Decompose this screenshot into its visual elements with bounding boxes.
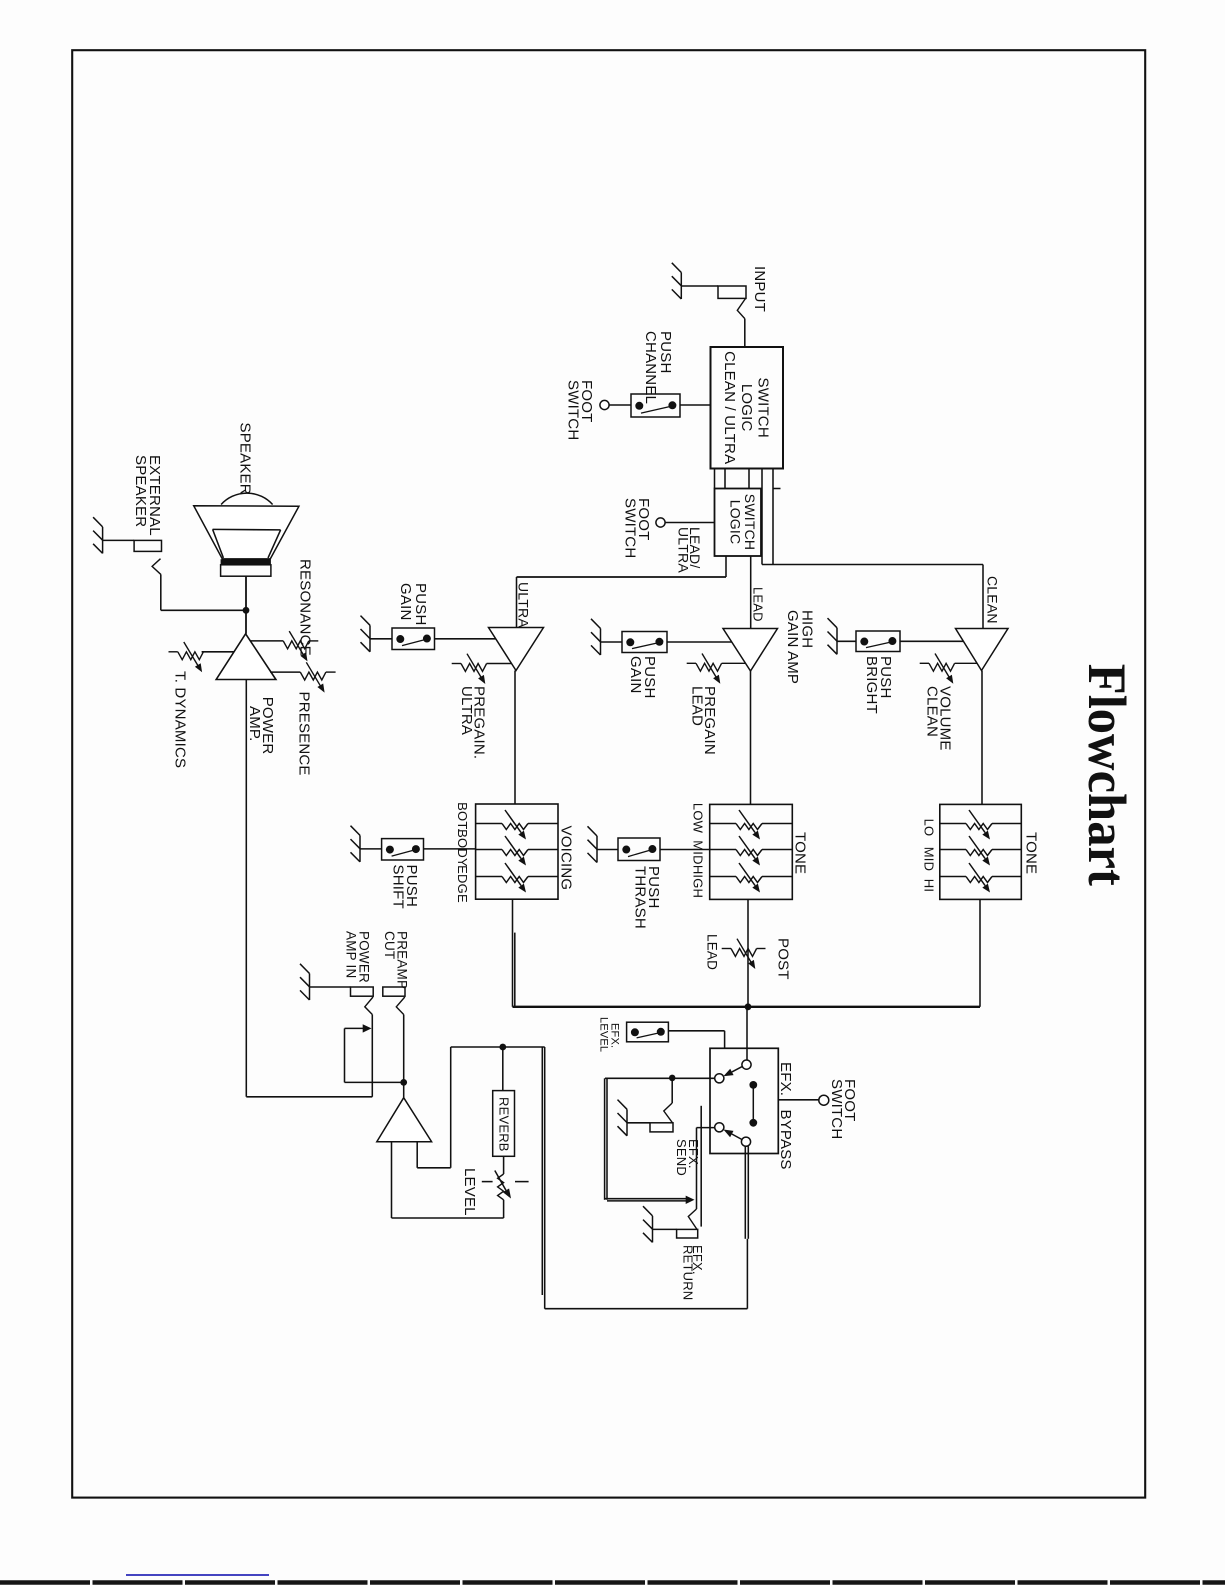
svg-text:LEAD: LEAD <box>705 934 720 970</box>
wire input to switch logic box <box>744 319 746 347</box>
op-amp A4 reverb driver <box>377 1098 432 1142</box>
pot PREGAIN LEAD <box>687 654 746 684</box>
ground (ultra push gain) <box>361 616 371 652</box>
label PREGAIN ULTRA <box>458 686 488 759</box>
wire ground to efx send jack <box>627 1122 650 1124</box>
label FOOT SWITCH (lead/ultra) <box>622 498 653 558</box>
power amp in jack J-PAI <box>351 987 374 996</box>
wire reverb level return <box>392 1217 504 1219</box>
svg-text:BODY: BODY <box>455 829 470 867</box>
clean tone pot row 2 <box>966 836 992 866</box>
label FOOT SWITCH (channel) <box>565 380 596 440</box>
preamp cut jack J-PC <box>383 987 405 996</box>
lead tone pot row 2 wire <box>710 849 793 851</box>
clean tone pot row 1 <box>966 810 992 840</box>
switch S6 PUSH THRASH <box>618 838 660 861</box>
efx return jack tip contact (break) <box>688 1209 697 1229</box>
label EFX LEVEL <box>598 1017 621 1052</box>
svg-text:GAIN: GAIN <box>627 656 644 693</box>
efx send jack tip contact (break) <box>664 1103 673 1123</box>
switch S2 PUSH GAIN (ultra) <box>392 628 435 650</box>
wire U1 lead line <box>761 469 763 565</box>
svg-text:SPEAKER: SPEAKER <box>237 423 254 495</box>
wire power amp output down <box>245 680 247 1097</box>
svg-text:BYPASS: BYPASS <box>777 1110 794 1170</box>
junction (reverb feed) <box>499 1044 506 1051</box>
label VOLUME CLEAN <box>924 686 954 751</box>
wire ground to power amp in jack <box>310 986 351 988</box>
svg-text:ULTRA: ULTRA <box>516 582 532 628</box>
wire bus to efx bypass box <box>746 1007 748 1060</box>
voicing pot row 2 wire <box>476 849 558 851</box>
label LO MID HI <box>922 819 937 893</box>
lead tone pot row 3 <box>736 863 762 893</box>
wire S7 to efx box <box>668 1031 724 1049</box>
label PRESENCE <box>296 692 313 776</box>
voicing pot row 1 <box>502 810 528 840</box>
label PUSH SHIFT <box>390 865 421 909</box>
efx bypass wiper arrow (top) <box>723 1067 742 1077</box>
ground (input jack sleeve) <box>672 263 682 299</box>
label PUSH GAIN (lead) <box>627 656 658 698</box>
wire ground to S4 <box>837 640 856 642</box>
label T.DYNAMICS <box>172 671 189 768</box>
op-amp A1 ultra channel <box>489 628 544 671</box>
wire ext speaker to node <box>161 575 246 611</box>
svg-text:SEND: SEND <box>674 1139 689 1176</box>
wire ground to S2 <box>370 638 392 640</box>
wire S2 to A1 <box>435 638 496 640</box>
switch S1 PUSH CHANNEL <box>631 394 680 417</box>
svg-text:RETURN: RETURN <box>681 1245 696 1300</box>
efx return jack J-RET <box>677 1229 698 1238</box>
wire S6 to lead tone box <box>660 849 710 851</box>
efx bypass bypass contact (upper) <box>749 1081 757 1089</box>
clean tone pot row 3 <box>966 863 992 893</box>
voicing pot row 2 <box>502 836 528 866</box>
switch-logic U1 box CLEAN/ULTRA <box>711 347 784 469</box>
svg-text:SWITCH: SWITCH <box>755 378 772 438</box>
footer link underline <box>126 1574 269 1576</box>
label LEAD/ULTRA <box>676 527 704 573</box>
label TONE (clean) <box>1023 832 1040 874</box>
external speaker jack J-EXT <box>134 540 161 551</box>
op-amp A3 clean channel <box>956 629 1009 671</box>
wire ground to efx return jack <box>653 1228 677 1230</box>
label SPEAKER <box>237 423 254 495</box>
wire normalling loop top <box>345 1027 364 1029</box>
svg-text:ULTRA: ULTRA <box>458 686 475 735</box>
label TONE (lead) <box>792 832 809 874</box>
preamp cut jack tip contact (break) <box>396 997 405 1015</box>
label PUSH CHANNEL <box>642 331 674 404</box>
label BYPASS <box>777 1110 794 1170</box>
wire U1 to U2 bus b <box>724 469 726 489</box>
tone box (lead) <box>710 804 793 899</box>
wire A3 to clean tone box <box>981 671 983 805</box>
input jack J-IN <box>718 286 746 298</box>
wire reverb driver left leg <box>391 1142 393 1218</box>
ground (external speaker) <box>93 517 103 553</box>
svg-text:SPEAKER: SPEAKER <box>132 455 149 527</box>
wire send loop horizontal to return <box>605 1199 686 1201</box>
svg-text:HIGH: HIGH <box>691 865 706 898</box>
wire return contact to return line <box>697 1127 715 1129</box>
ground (efx return) <box>643 1206 653 1242</box>
svg-text:T. DYNAMICS: T. DYNAMICS <box>172 671 189 768</box>
svg-text:SWITCH: SWITCH <box>622 498 639 558</box>
label VOICING <box>558 826 575 891</box>
pot LEVEL (reverb) <box>482 1171 529 1200</box>
wire speaker to node <box>245 576 247 610</box>
wire efx return stub <box>700 1106 702 1227</box>
svg-text:CLEAN / ULTRA: CLEAN / ULTRA <box>721 351 738 464</box>
ground (push thrash) <box>588 826 598 862</box>
switch S7 EFX LEVEL <box>627 1022 669 1042</box>
svg-text:MID: MID <box>691 840 706 864</box>
wire S3 to A2 <box>667 641 732 643</box>
label POWER AMP <box>246 697 276 755</box>
foot switch terminal (lead/ultra) <box>656 518 665 527</box>
wire efx output up to reverb node (a) <box>541 1047 543 1295</box>
label PUSH THRASH <box>632 866 663 929</box>
wire channel switch to U1 <box>680 404 711 406</box>
svg-text:LO: LO <box>922 819 937 837</box>
label LOW MID HIGH <box>691 803 706 898</box>
wire junction to reverb tank <box>502 1047 504 1091</box>
wire to power amp (horizontal) <box>246 1096 372 1098</box>
wire efx output bottom horizontal <box>545 1308 748 1310</box>
svg-text:THRASH: THRASH <box>632 866 649 929</box>
svg-text:EDGE: EDGE <box>455 865 470 903</box>
label LEAD (to high gain amp) <box>751 587 766 622</box>
foot switch terminal (channel) <box>600 400 609 409</box>
speaker frame <box>221 565 271 576</box>
wire reverb tank to level pot <box>503 1156 505 1174</box>
wire reverb feed horizontal <box>451 1046 545 1048</box>
wire stub right of U2 <box>773 488 781 490</box>
label INPUT <box>751 266 768 312</box>
speaker magnet <box>221 559 271 565</box>
svg-text:CUT: CUT <box>382 931 397 959</box>
label BOT. BODY EDGE <box>455 802 470 903</box>
clean tone pot row 2 wire <box>940 849 1022 851</box>
wire efx output up to reverb node (b) <box>544 1047 546 1309</box>
pot RESONANCE <box>250 631 318 661</box>
efx bypass send contact <box>715 1074 724 1083</box>
wire normalling loop vertical <box>344 1028 346 1082</box>
op-amp A5 power amp <box>216 634 276 680</box>
svg-text:RESONANCE: RESONANCE <box>297 559 314 656</box>
wire S5 to voicing box <box>424 848 476 850</box>
svg-text:INPUT: INPUT <box>751 266 768 312</box>
svg-text:SWITCH: SWITCH <box>828 1079 845 1139</box>
wire power amp in normal line <box>371 1015 373 1097</box>
wire reverb driver right leg <box>417 1047 451 1168</box>
wire ground to ext speaker jack <box>103 539 135 541</box>
svg-text:HI: HI <box>922 879 937 892</box>
label PUSH BRIGHT <box>863 656 894 714</box>
wire terminal to U2 <box>665 522 714 524</box>
speaker cone inner <box>213 529 281 558</box>
label FOOT SWITCH (efx) <box>828 1079 858 1139</box>
label EFX. RETURN <box>681 1245 706 1300</box>
speaker dust cap dome <box>221 493 273 504</box>
svg-text:CHANNEL: CHANNEL <box>642 331 659 404</box>
svg-text:CLEAN: CLEAN <box>924 686 941 737</box>
ground (push bright) <box>828 618 838 654</box>
label PREGAIN LEAD <box>689 686 719 755</box>
voicing pot row 3 <box>502 863 528 893</box>
lead tone pot row 2 <box>736 836 762 866</box>
lead tone pot row 1 wire <box>710 823 793 825</box>
pot PREGAIN ULTRA <box>452 654 512 684</box>
label POWER AMP IN <box>344 931 372 983</box>
speaker cone <box>194 506 299 559</box>
op-amp A2 lead channel (high gain amp) <box>723 629 778 672</box>
pot T.DYNAMICS <box>169 642 234 672</box>
label LEAD (post pot) <box>705 934 720 970</box>
junction (lead tone to bus) <box>745 1003 752 1010</box>
efx bypass output contact <box>741 1137 750 1146</box>
svg-text:LEVEL: LEVEL <box>461 1168 478 1216</box>
efx send jack J-SEND <box>650 1123 673 1132</box>
svg-text:GAIN: GAIN <box>397 583 414 620</box>
wire junction to send loop <box>605 1077 672 1079</box>
efx bypass input contact <box>742 1060 751 1069</box>
label POST <box>775 938 792 980</box>
arrow to power amp in line <box>363 1024 372 1032</box>
wire voicing to bus (second) <box>514 933 516 1007</box>
voicing pot row 3 wire <box>476 876 558 878</box>
lead tone pot row 3 wire <box>710 876 793 878</box>
title Flowchart <box>1077 664 1137 886</box>
wire A1 to voicing box <box>514 671 516 805</box>
wire ground to S3 <box>601 641 623 643</box>
wire S4 to A3 <box>900 640 964 642</box>
svg-text:AMP IN: AMP IN <box>344 931 359 978</box>
wire preamp cut normal line <box>403 1015 405 1083</box>
svg-text:SHIFT: SHIFT <box>390 865 407 909</box>
voicing box <box>476 804 558 899</box>
wire efx output down (c) <box>746 1239 748 1309</box>
svg-text:MID: MID <box>922 847 937 871</box>
label LEVEL (reverb) <box>461 1168 478 1216</box>
wire U2 to ultra amp <box>517 556 727 628</box>
wire bypass contacts <box>752 1085 754 1123</box>
arrow to efx return line <box>686 1196 695 1204</box>
svg-text:REVERB: REVERB <box>497 1097 512 1152</box>
svg-text:EFX.: EFX. <box>777 1062 794 1096</box>
wire A2 to tone box <box>750 671 752 804</box>
switch S5 PUSH SHIFT <box>382 839 424 860</box>
wire clean line to clean amp <box>762 565 983 629</box>
input jack tip contact (break) <box>737 299 745 319</box>
svg-text:Flowchart: Flowchart <box>1077 664 1137 886</box>
wire node to reverb driver <box>403 1082 405 1097</box>
wire efx return line <box>696 1128 698 1209</box>
svg-text:BOT.: BOT. <box>455 802 470 832</box>
clean tone pot row 3 wire <box>940 876 1022 878</box>
wire ground to input jack <box>681 285 718 287</box>
page border frame <box>72 50 1145 1497</box>
svg-text:ULTRA: ULTRA <box>676 527 692 573</box>
wire send contact to junction <box>672 1077 715 1079</box>
svg-text:LEAD: LEAD <box>689 686 706 726</box>
foot switch terminal (efx) <box>819 1095 829 1105</box>
wire terminal to channel switch <box>609 404 631 406</box>
bus post-tone summing line <box>513 1006 981 1008</box>
switch-logic U2 box LEAD/ULTRA <box>715 489 762 557</box>
wire lead tone to bus <box>747 899 749 1006</box>
efx bypass wiper arrow (bottom) <box>723 1130 742 1140</box>
svg-text:POST: POST <box>775 938 792 980</box>
wire clean tone to bus <box>979 899 981 1006</box>
wire U1 to U2 bus c <box>748 469 750 489</box>
ext speaker jack tip contact (break) <box>152 559 161 575</box>
svg-text:TONE: TONE <box>792 832 809 874</box>
svg-text:TONE: TONE <box>1023 832 1040 874</box>
efx bypass bypass contact (lower) <box>749 1119 757 1127</box>
pot VOLUME CLEAN <box>920 654 977 684</box>
wire efx output down (b) <box>747 1146 749 1239</box>
pot PRESENCE <box>270 662 335 692</box>
svg-text:BRIGHT: BRIGHT <box>863 656 880 714</box>
junction (power amp node) <box>400 1079 407 1086</box>
label EXTERNAL SPEAKER <box>132 455 163 536</box>
ground (lead push gain) <box>591 619 601 655</box>
junction (efx send) <box>669 1075 676 1082</box>
wire normalling loop bottom <box>345 1081 404 1083</box>
wire level pot to return line <box>503 1200 505 1218</box>
svg-text:AMP.: AMP. <box>246 706 263 742</box>
label EFX. SEND <box>674 1139 701 1176</box>
wire efx output down (a) <box>744 1146 746 1239</box>
pot POST <box>722 939 766 969</box>
svg-text:LEVEL: LEVEL <box>598 1017 610 1052</box>
clean tone pot row 1 wire <box>940 823 1022 825</box>
ground (efx send) <box>618 1100 628 1136</box>
ground (power amp in) <box>300 964 310 1000</box>
label PREAMP CUT <box>382 931 410 989</box>
wire send loop vertical <box>605 1078 607 1200</box>
svg-text:SWITCH: SWITCH <box>565 380 582 440</box>
power amp in jack tip contact (break) <box>365 997 373 1015</box>
ground (push shift) <box>351 826 361 862</box>
wire ground to S6 <box>597 849 618 851</box>
label EFX. (bypass) <box>777 1062 794 1096</box>
wire ground to S5 <box>360 848 382 850</box>
wire efx box to foot switch <box>778 1099 819 1101</box>
lead tone pot row 1 <box>736 810 762 840</box>
wire U1 to U2 bus a <box>714 469 716 489</box>
wire junction to efx send jack <box>671 1078 673 1103</box>
label HIGH GAIN AMP <box>784 610 816 684</box>
label RESONANCE <box>297 559 314 656</box>
wire U1 clean line <box>772 469 774 565</box>
wire node to power amp <box>245 610 247 634</box>
svg-text:LEAD: LEAD <box>751 587 766 622</box>
switch S4 PUSH BRIGHT <box>856 631 900 652</box>
efx bypass return contact <box>715 1123 724 1132</box>
tone box (clean) <box>940 804 1022 899</box>
svg-text:PRESENCE: PRESENCE <box>296 692 313 776</box>
svg-text:CLEAN: CLEAN <box>985 576 1001 624</box>
voicing pot row 1 wire <box>476 823 558 825</box>
label CLEAN <box>985 576 1001 624</box>
svg-text:LOW: LOW <box>691 803 706 834</box>
wire voicing to bus <box>512 899 514 1007</box>
reverb tank box <box>493 1091 515 1157</box>
svg-text:VOICING: VOICING <box>558 826 575 891</box>
svg-text:LOGIC: LOGIC <box>738 384 755 432</box>
wire U2 to lead amp <box>750 556 752 629</box>
svg-text:GAIN AMP: GAIN AMP <box>784 610 801 684</box>
svg-text:LOGIC: LOGIC <box>728 500 744 545</box>
switch S3 PUSH GAIN (lead) <box>622 632 667 653</box>
efx bypass box <box>710 1048 778 1153</box>
label ULTRA <box>516 582 532 628</box>
junction (speaker node) <box>243 607 250 614</box>
page bottom scan bar <box>0 1580 1225 1584</box>
label PUSH GAIN (ultra) <box>397 583 429 625</box>
